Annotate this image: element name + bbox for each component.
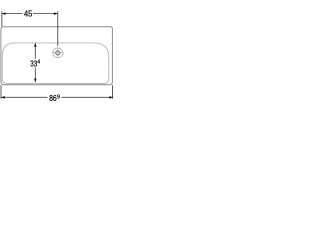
svg-text:45: 45 <box>24 10 33 19</box>
svg-text:86: 86 <box>49 94 57 103</box>
svg-text:9: 9 <box>57 95 60 101</box>
svg-text:4: 4 <box>37 59 40 65</box>
